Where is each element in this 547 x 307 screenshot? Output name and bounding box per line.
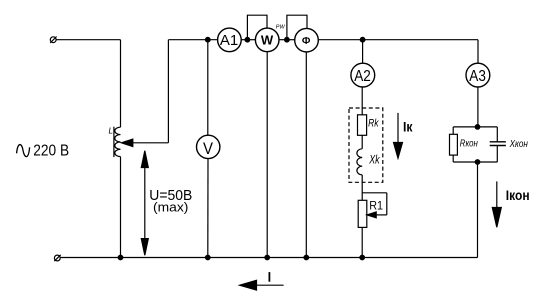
wire A2 branch from top rail [362, 40, 364, 64]
wiper tap arrow of autotransformer [121, 40, 168, 147]
current arrow I (bottom) [240, 280, 284, 290]
wire Xkon to bottom bar [496, 146, 498, 163]
voltage span arrow U=50V (double headed) [141, 151, 148, 256]
wire A2 to Rk [361, 87, 363, 115]
autotransformer L [114, 40, 121, 258]
phase meter F [295, 28, 319, 52]
svg-text:L: L [109, 127, 113, 136]
load block top bar wire [453, 126, 497, 128]
wire load bottom to bottom rail corner [477, 162, 479, 258]
svg-text:Iк: Iк [403, 118, 413, 134]
AC source symbol (sine) [17, 145, 30, 157]
ammeter A3 [466, 63, 490, 87]
node junction (V meter, bottom rail) [206, 255, 211, 260]
node junction (load top) [475, 125, 480, 130]
wire R1 to bottom rail [361, 227, 363, 257]
voltmeter V [197, 135, 220, 158]
bottom rail wire [60, 257, 477, 259]
node junction (transformer, bottom rail) [118, 255, 123, 260]
svg-text:Xкон: Xкон [509, 139, 529, 150]
node junction (load bottom) [475, 160, 480, 165]
wire W to F [279, 39, 295, 41]
wire Xk to R1 [361, 175, 363, 200]
F voltage-coil loop wire [287, 15, 307, 40]
load block bottom bar wire [453, 161, 497, 163]
svg-text:Ф: Ф [302, 36, 311, 47]
wire Rk to Xk [361, 135, 363, 149]
rheostat R1 [358, 200, 367, 227]
svg-text:W: W [261, 33, 274, 48]
wire W bottom to bottom rail [266, 52, 268, 258]
resistor Rk [358, 115, 367, 136]
svg-text:(max): (max) [153, 199, 188, 214]
node junction (F voltage coil) [285, 37, 290, 42]
node junction (W voltage coil) [245, 37, 250, 42]
svg-text:A2: A2 [354, 68, 371, 85]
ammeter A2 [351, 63, 375, 87]
ammeter A1 [218, 28, 242, 52]
svg-text:A1: A1 [220, 32, 238, 49]
svg-text:220 В: 220 В [33, 143, 69, 160]
svg-text:Xk: Xk [368, 152, 380, 166]
wire A1 to W [241, 39, 255, 41]
wattmeter W [255, 28, 279, 52]
svg-text:Iкон: Iкон [506, 187, 530, 203]
svg-text:R1: R1 [369, 199, 383, 213]
dashed box around Rk and Xk [349, 108, 383, 182]
wire F to top-right corner [318, 39, 478, 41]
left branch wire to Rkon [452, 127, 454, 134]
svg-text:Rk: Rk [368, 118, 379, 130]
svg-text:A3: A3 [469, 68, 486, 85]
wire V branch from top rail [207, 40, 209, 136]
wire A3 to load block [477, 87, 479, 127]
current arrow Ikon [492, 181, 501, 227]
wire F bottom to bottom rail [305, 52, 307, 258]
current arrow Ik [394, 113, 403, 158]
node junction (W meter, bottom rail) [265, 255, 270, 260]
label I [269, 272, 271, 282]
wire tap to A1 [168, 39, 217, 41]
wire corner down to A3 [477, 40, 479, 64]
capacitor Xkon [490, 142, 506, 146]
terminal T1 (top-left input) [50, 37, 56, 43]
node junction (A2 branch, top) [360, 37, 365, 42]
node junction (F meter, bottom rail) [304, 255, 309, 260]
wire Rkon to bottom bar [452, 155, 454, 162]
svg-text:PW: PW [276, 24, 286, 30]
svg-text:V: V [203, 139, 214, 158]
terminal T2 (bottom-left input) [54, 255, 60, 261]
wire from T1 to autotransformer top [56, 39, 120, 41]
R1 wiper arrow and shorting wire [362, 193, 387, 218]
W voltage-coil loop wire [247, 15, 267, 40]
wire V to bottom rail [207, 159, 209, 258]
node junction (R1 branch, bottom rail) [360, 255, 365, 260]
resistor Rkon [450, 134, 458, 155]
svg-text:Rкон: Rкон [460, 138, 478, 149]
node junction (V branch, top) [206, 37, 211, 42]
right branch wire to Xkon [496, 127, 498, 142]
inductor Xk [357, 149, 362, 175]
